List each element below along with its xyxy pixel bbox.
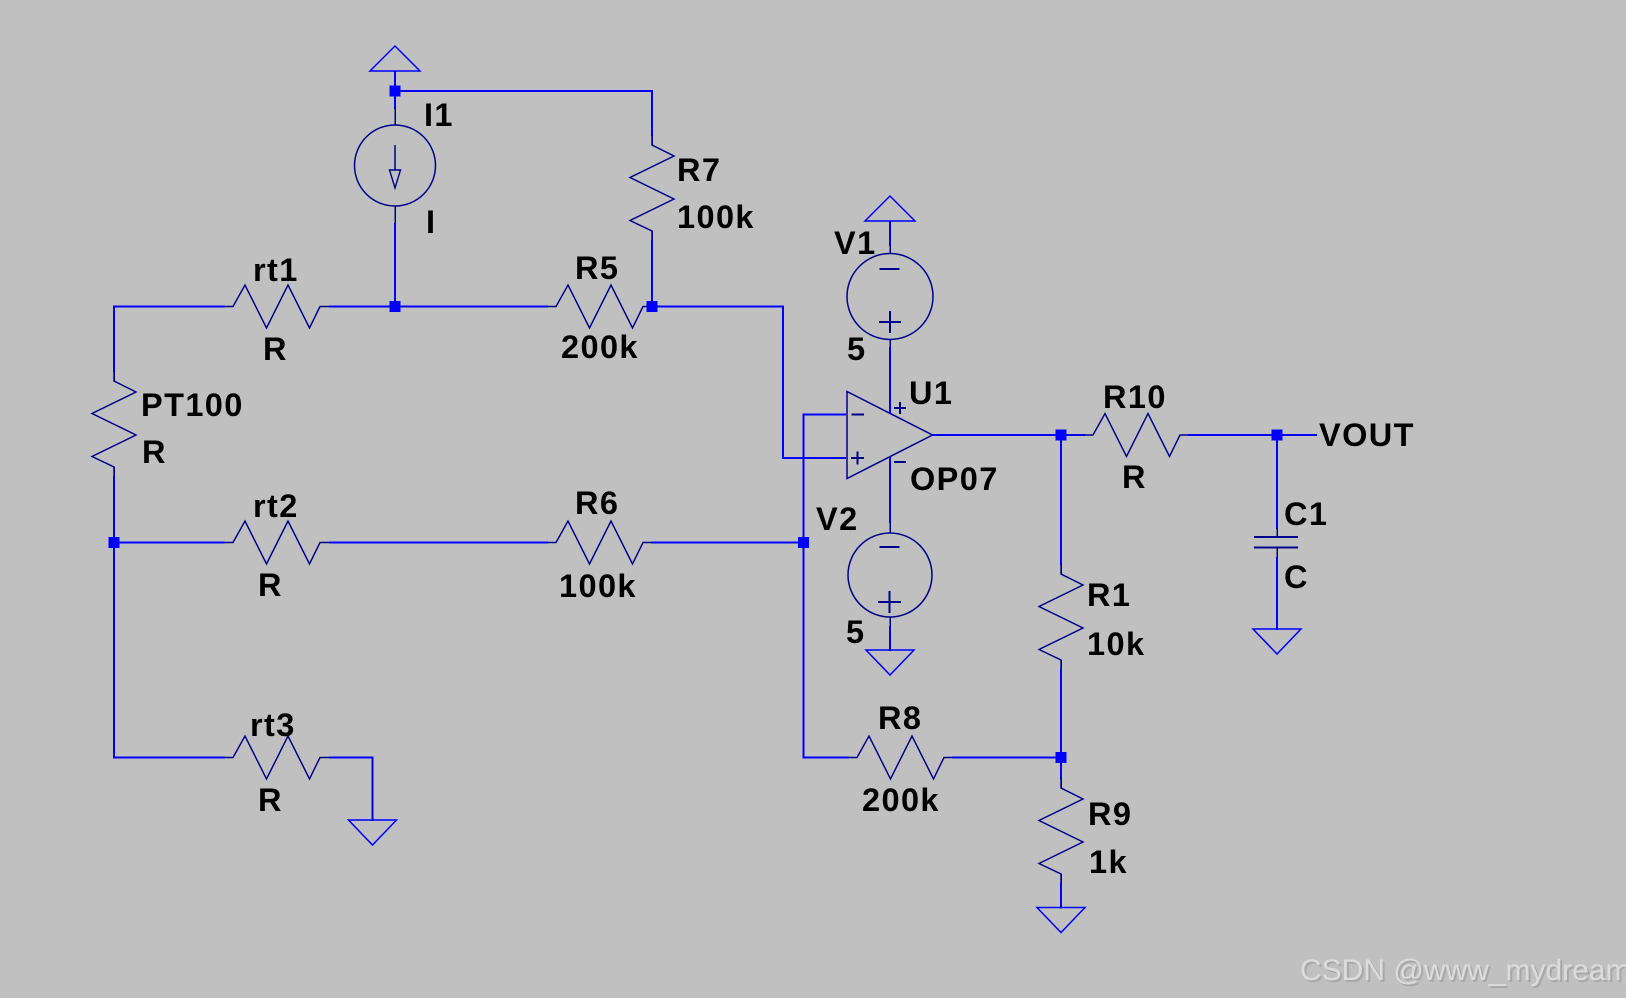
wire node to R5 (400, 306, 548, 308)
ground C1 (1253, 629, 1301, 654)
svg-text:PT100: PT100 (141, 387, 244, 423)
V1 plus sign v (889, 311, 891, 333)
op-amp V+ mark v (899, 402, 901, 414)
V1 circle (847, 254, 933, 340)
svg-text:R9: R9 (1088, 796, 1132, 832)
V1 top lead (889, 245, 891, 254)
R9 zigzag (1039, 778, 1083, 884)
rt3 zigzag (224, 736, 329, 779)
svg-text:100k: 100k (559, 568, 637, 604)
wire rt3 to ground (329, 758, 373, 822)
wire node to I1 (394, 96, 396, 109)
R9 top lead (1060, 778, 1062, 788)
V1 plus sign h (879, 321, 901, 323)
node rt1/R5/I1 (390, 301, 401, 312)
I1 top lead (394, 107, 396, 125)
wire left to rt1 (113, 306, 225, 308)
ground rt3 (349, 820, 397, 845)
wire left column to rt3 (113, 757, 225, 759)
svg-text:R: R (258, 782, 283, 818)
svg-text:V1: V1 (834, 225, 877, 261)
svg-text:1k: 1k (1089, 844, 1128, 880)
op-amp V+ mark h (894, 407, 906, 409)
op-amp + input mark h (851, 457, 864, 459)
svg-text:R: R (1122, 459, 1147, 495)
V2 minus sign (880, 546, 900, 548)
node output (1056, 430, 1067, 441)
svg-text:R6: R6 (575, 485, 619, 521)
node R5/R7/out (647, 301, 658, 312)
svg-text:C: C (1284, 559, 1309, 595)
wire R6 to inverting node (651, 542, 798, 544)
svg-text:CSDN @www_mydream: CSDN @www_mydream (1300, 954, 1626, 987)
svg-text:5: 5 (846, 614, 865, 650)
R8 zigzag (848, 736, 953, 779)
svg-text:R: R (142, 434, 167, 470)
svg-text:200k: 200k (862, 782, 940, 818)
wire R1 to node (1060, 669, 1062, 753)
I1 arrow head (390, 170, 401, 188)
wire V2 to ground (889, 626, 891, 651)
svg-text:OP07: OP07 (910, 461, 999, 497)
C1 top lead (1276, 528, 1278, 537)
op-amp triangle (847, 392, 933, 479)
svg-text:R: R (263, 331, 288, 367)
wire rt1 corner down to PT100 (113, 306, 115, 373)
wire node to R9 (1060, 762, 1062, 779)
R7 top lead (651, 135, 653, 145)
wire rt2 to R6 (329, 542, 548, 544)
ground R9 (1037, 908, 1085, 933)
svg-text:R5: R5 (575, 250, 619, 286)
wire op-amp V- to V2 (889, 457, 891, 524)
wire R9 to ground (1060, 883, 1062, 909)
C1 bottom plate (1254, 547, 1298, 549)
PT100 bottom lead (113, 467, 115, 477)
svg-text:R: R (258, 567, 283, 603)
wire rt2 node down to rt3 row (113, 543, 115, 759)
wire PT100 to rt2 node (113, 476, 115, 543)
node left column rt2 (109, 537, 120, 548)
wire node to R10 (1066, 434, 1085, 436)
I1 bottom lead (394, 206, 396, 224)
node I1 top rail (390, 86, 401, 97)
rt2 zigzag (224, 521, 329, 564)
R1 bottom lead (1060, 660, 1062, 670)
svg-text:I1: I1 (424, 97, 454, 133)
svg-text:U1: U1 (909, 375, 953, 411)
wire down to R7 (651, 90, 653, 136)
R10 zigzag (1084, 414, 1189, 457)
rt1 zigzag (224, 285, 329, 328)
R5 right stub (651, 306, 657, 308)
node R8/R1/R9 (1056, 752, 1067, 763)
wire stub to VOUT flag (1282, 434, 1317, 436)
wire top rail I1 to R7 (395, 90, 652, 92)
svg-text:VOUT: VOUT (1319, 417, 1415, 453)
R1 top lead (1060, 564, 1062, 574)
C1 bottom lead (1276, 547, 1278, 558)
svg-text:rt1: rt1 (253, 252, 299, 288)
PT100 zigzag (92, 371, 136, 477)
wire node to rt2 (118, 542, 225, 544)
wire V1 to op-amp V+ (889, 347, 891, 414)
V1 minus sign (880, 268, 900, 270)
power flag triangle (370, 46, 420, 71)
svg-text:R7: R7 (677, 152, 721, 188)
wire flag to node (394, 71, 396, 87)
svg-text:100k: 100k (677, 199, 755, 235)
R7 bottom lead (651, 231, 653, 241)
wire C1 to ground (1276, 557, 1278, 630)
V2 circle (848, 533, 932, 617)
node R6/feedback (798, 537, 809, 548)
svg-text:I: I (426, 204, 436, 240)
R5 zigzag (547, 285, 652, 328)
ground V2 (866, 650, 914, 675)
R9 bottom lead (1060, 874, 1062, 884)
V2 plus sign v (889, 591, 891, 613)
svg-text:R1: R1 (1087, 577, 1131, 613)
V2 top lead (889, 522, 891, 533)
R1 zigzag (1039, 564, 1083, 670)
C1 top plate (1254, 536, 1298, 538)
svg-text:R10: R10 (1103, 379, 1167, 415)
svg-text:rt2: rt2 (253, 488, 299, 524)
svg-text:10k: 10k (1087, 626, 1145, 662)
I1 circle (355, 125, 436, 206)
wire rt1 to node (329, 306, 390, 308)
op-amp - input mark (852, 414, 865, 416)
R7 zigzag (630, 135, 674, 241)
V2 plus sign h (878, 601, 901, 603)
PT100 top lead (113, 371, 115, 381)
wire op-amp output to node (931, 434, 1056, 436)
wire output node down to R1 (1060, 440, 1062, 565)
svg-text:V2: V2 (816, 501, 859, 537)
svg-text:200k: 200k (561, 329, 639, 365)
I1 arrow shaft (394, 145, 396, 170)
svg-text:C1: C1 (1284, 496, 1328, 532)
node VOUT (1272, 430, 1283, 441)
wire feedback column to R8 (803, 757, 850, 759)
R6 zigzag (547, 521, 652, 564)
svg-text:rt3: rt3 (250, 707, 296, 743)
V1 bottom lead (889, 339, 891, 348)
wire flag to V1 (889, 221, 891, 246)
svg-text:5: 5 (847, 331, 866, 367)
wire R10 to VOUT node (1188, 434, 1272, 436)
wire op-amp - input down feedback column (804, 415, 847, 759)
power flag triangle V1 (865, 196, 915, 221)
V2 bottom lead (889, 617, 891, 627)
wire R5 node to op-amp + input (657, 307, 846, 459)
svg-text:R8: R8 (878, 700, 922, 736)
wire VOUT node down to C1 (1276, 440, 1278, 529)
op-amp + input mark v (857, 452, 859, 465)
wire I1 to node (394, 223, 396, 301)
op-amp V- mark (894, 461, 906, 463)
wire R7 to node (651, 240, 653, 301)
wire R8 to node (952, 757, 1056, 759)
